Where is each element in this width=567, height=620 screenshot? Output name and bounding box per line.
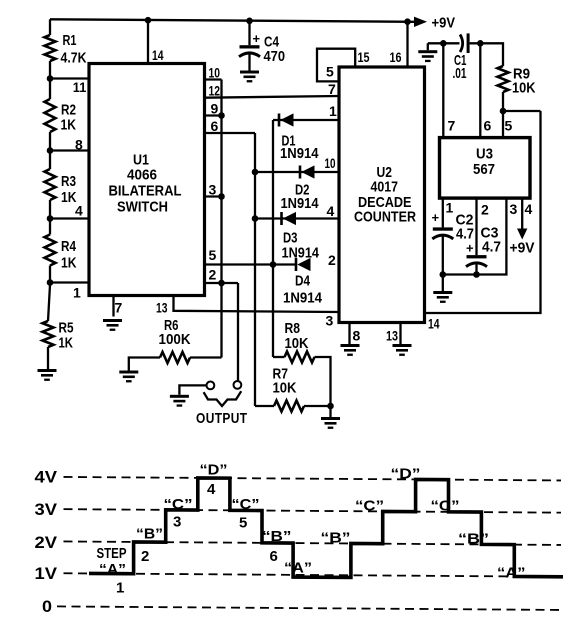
svg-text:10: 10 [209,65,221,81]
svg-text:4.7K: 4.7K [61,50,87,67]
switch right contact [234,381,242,389]
wire R8 right down to ground node [315,357,331,406]
resistor R4 [45,235,56,266]
wire pin2 node down to switch [237,283,239,381]
svg-text:5: 5 [326,64,334,80]
op-amp U1 4066 box [89,64,205,296]
junction pin11 tap [47,75,54,82]
op-amp U2 4017 box [339,67,425,323]
resistor R5 [43,321,54,347]
junction U1 pin14/rail [145,17,152,24]
diode D2 [299,165,315,178]
svg-text:+: + [253,31,261,46]
wire U3 pin 6 vertical [479,43,481,137]
wire C1 to R9 corner [470,43,503,66]
wire U1 pin 12 to U2 pin 7 [205,96,340,98]
svg-text:+9V: +9V [510,240,535,257]
wire U3 pin 4 stub [521,198,523,229]
wire D3 to U2 pin 4 [255,217,339,219]
switch actuator [204,391,242,406]
svg-text:15: 15 [358,49,370,65]
svg-text:13: 13 [156,300,168,316]
junction pin 3 on bus [218,193,225,200]
wire +9V top rail [50,19,414,22]
svg-text:OUTPUT: OUTPUT [196,410,248,427]
svg-text:100K: 100K [159,331,191,348]
junction C2/ground rail [440,271,447,278]
svg-text:2: 2 [141,548,149,565]
junction U2 pin16/rail [404,18,411,25]
wire U3 pin 1 to C2 [442,198,444,227]
svg-text:COUNTER: COUNTER [354,209,416,226]
junction pin5/control-B vertical [270,261,277,268]
wire ground to C1 [428,42,460,44]
wire U2 pin 8 to ground [348,323,350,345]
wire tap to U1 pin 1 [50,281,89,283]
svg-text:2V: 2V [35,533,58,552]
svg-text:“B”: “B” [262,528,292,545]
junction C3/ground rail [473,271,480,278]
resistor R6 [160,352,190,363]
junction R9/U3 pin 5/clock [500,108,507,115]
svg-text:“C”: “C” [232,496,260,513]
svg-text:“D”: “D” [200,462,228,479]
svg-text:“A”: “A” [497,565,526,582]
wire ladder rail R2-R3 [49,132,51,169]
waveform grid line 3V [64,509,562,513]
junction pin8 tap [47,147,54,154]
junction pin1 tap [47,279,54,286]
wire tap to U1 pin 11 [50,77,89,79]
waveform grid line 0V [57,606,561,610]
svg-text:“C”: “C” [431,498,460,515]
junction C1/U3 pin 6 [477,40,484,47]
svg-text:1N914: 1N914 [282,245,320,262]
wire U3 pin 2 to C3 [475,198,477,255]
svg-text:8: 8 [75,137,83,153]
wire ground rail to ground [442,275,444,292]
wire C3 to ground rail [475,264,477,275]
ground below U1 pin 7 [103,319,122,331]
svg-text:1: 1 [116,580,124,597]
svg-text:10K: 10K [512,80,536,97]
svg-text:R4: R4 [61,238,77,255]
wire U1 pin 6 to control-C line [205,132,256,134]
svg-text:10K: 10K [285,335,309,352]
switch left contact [207,382,215,390]
wire R7 left to control-C [255,405,274,407]
svg-text:1K: 1K [59,335,74,352]
svg-text:+9V: +9V [432,15,456,32]
svg-text:3: 3 [326,313,334,329]
svg-text:7: 7 [448,118,456,134]
wire U3 pin 7 vertical [442,43,444,137]
svg-text:STEP: STEP [97,545,127,562]
resistor R8 [285,352,315,363]
svg-text:470: 470 [264,48,286,65]
svg-text:4066: 4066 [127,167,157,184]
wire ground rail under U3 [443,198,507,275]
diode D4 [295,258,311,271]
svg-text:“B”: “B” [458,531,489,548]
wire ladder rail R3-R4 [49,200,51,235]
svg-text:“B”: “B” [321,530,351,547]
svg-text:4: 4 [207,481,216,498]
ground below U2 pin 8 [341,344,360,356]
svg-text:1: 1 [446,200,454,216]
junction R7/R8 ground node [327,403,334,410]
wire U2 reset loop pin5-pin15 [317,49,355,82]
wire U1 pin 13 to U2 pin 3 [174,296,340,313]
wire U1 pin 2 stub [205,282,239,284]
svg-text:0: 0 [42,597,52,616]
svg-text:4017: 4017 [371,179,399,196]
capacitor C1 [460,35,463,53]
svg-text:5: 5 [505,118,513,134]
svg-text:U3: U3 [476,146,493,163]
svg-text:4V: 4V [35,468,58,487]
svg-text:16: 16 [390,49,402,65]
wire switch left to ground [179,385,206,394]
svg-text:1V: 1V [35,564,58,583]
svg-text:R3: R3 [61,173,76,190]
svg-text:1: 1 [73,285,81,301]
wire U2 pin 13 to ground [399,323,401,345]
svg-text:3: 3 [173,514,181,531]
wire U2 pin 14 to 567 output [425,111,541,313]
waveform staircase trace [89,477,563,579]
svg-text:13: 13 [386,328,398,344]
svg-text:4: 4 [525,201,533,217]
ground below R7/R8 [321,417,340,429]
svg-text:12: 12 [209,83,221,99]
junction pin4 tap [47,215,54,222]
svg-text:+: + [466,241,474,256]
wire R6 right to output bus [190,356,222,358]
svg-text:3V: 3V [35,500,58,519]
wire control-C vertical to R7 [254,133,256,406]
svg-text:6: 6 [211,118,219,134]
resistor R2 [45,99,56,132]
svg-text:7: 7 [328,81,336,97]
wire U1 pin 7 to ground [112,296,114,317]
resistor R7 [274,401,304,412]
junction C1/U3 pin 7 [440,40,447,47]
ground below switch [170,395,189,407]
wire R8 left to control-B [273,356,285,358]
wire D1 to U2 pin 1 [273,119,339,121]
wire D1 cathode vertical (control-B) [272,120,274,357]
junction C4/rail [246,18,253,25]
junction pin 2 on bus [218,280,225,287]
junction D3/control-C [252,215,259,222]
waveform grid line 2V [64,541,562,545]
svg-text:“A”: “A” [99,561,126,578]
diode D1 [278,113,294,126]
capacitor C3 [466,255,487,267]
svg-text:“D”: “D” [391,466,421,483]
svg-text:1: 1 [329,103,337,119]
svg-text:1N914: 1N914 [280,145,319,162]
svg-text:BILATERAL: BILATERAL [109,183,182,200]
wire ladder rail R4-R5 [48,266,50,322]
ground below R6 [119,371,138,383]
junction pin 9 on bus [218,112,225,119]
waveform grid line 4V [64,477,562,481]
svg-text:2: 2 [481,202,489,218]
resistor R1 [45,35,56,61]
svg-text:1N914: 1N914 [281,195,320,212]
svg-text:SWITCH: SWITCH [117,199,168,216]
resistor R3 [45,169,56,200]
svg-text:2: 2 [209,267,217,283]
ground at C1 left [427,43,429,50]
svg-text:567: 567 [473,161,495,178]
svg-text:3: 3 [209,182,217,198]
wire U1 pin 10 stub [205,78,222,80]
wire U1 pin 9 stub [205,114,222,116]
wire R7 right to ground node [304,405,331,407]
svg-text:2: 2 [328,252,336,268]
wire D2 to U2 pin 10 [255,171,339,173]
wire U2 pin 16 to rail [406,21,408,67]
svg-text:6: 6 [484,118,492,134]
wire R6 left to ground [129,358,160,371]
svg-text:4: 4 [75,203,83,219]
op-amp U3 567 box [440,138,531,199]
wire U1 pin 5 to D4 [205,263,297,265]
svg-text:“B”: “B” [136,526,163,543]
wire C2 to ground rail [442,236,444,275]
svg-text:4: 4 [327,203,335,219]
svg-text:14: 14 [428,316,440,332]
wire tap to U1 pin 4 [50,217,89,219]
svg-text:9: 9 [211,101,219,117]
svg-text:10: 10 [325,155,336,171]
ground below R5 [38,369,57,381]
svg-text:5: 5 [209,247,217,263]
svg-text:D4: D4 [295,273,311,290]
svg-text:5: 5 [239,515,247,532]
svg-text:1K: 1K [61,117,77,134]
svg-text:8: 8 [353,328,361,344]
wire ground node stem [329,406,331,417]
svg-text:1K: 1K [61,255,77,272]
svg-text:7: 7 [115,300,123,316]
svg-text:R1: R1 [63,32,77,49]
diode D3 [280,212,296,225]
svg-text:1N914: 1N914 [283,290,323,307]
ground below C2 [433,291,452,303]
node +9V top arrow [414,17,427,27]
svg-text:“C”: “C” [355,498,384,515]
junction D2/control-C [252,169,259,176]
wire pin5 node to U2 clock [503,110,541,112]
wire U1 pin 14 to rail [147,20,149,64]
svg-text:3: 3 [510,201,518,217]
ground below C4 [240,71,259,83]
svg-text:4.7: 4.7 [482,239,501,256]
wire ladder rail R1-R2 [49,61,51,99]
svg-text:+: + [432,210,440,225]
svg-text:.01: .01 [453,65,467,82]
waveform grid line 1V [64,573,562,577]
svg-text:“A”: “A” [284,560,312,577]
capacitor C4 [248,20,250,45]
svg-text:“C”: “C” [164,496,193,513]
wire output bus vertical [220,80,222,358]
capacitor C2 [432,227,453,239]
node +9V at U3 pin 4 [517,229,527,240]
ground below U2 pin 13 [393,344,412,356]
svg-text:10K: 10K [273,380,297,397]
wire R9 to pin5 node [502,92,504,138]
resistor R9 [498,66,509,92]
wire left ladder rail top [49,19,51,35]
svg-text:14: 14 [152,47,164,63]
wire R5 to ground [47,347,49,369]
svg-text:6: 6 [270,548,278,565]
wire U1 pin 3 stub [205,195,222,197]
wire C4 to ground [248,54,250,71]
wire tap to U1 pin 8 [50,149,89,151]
svg-text:11: 11 [73,79,87,95]
